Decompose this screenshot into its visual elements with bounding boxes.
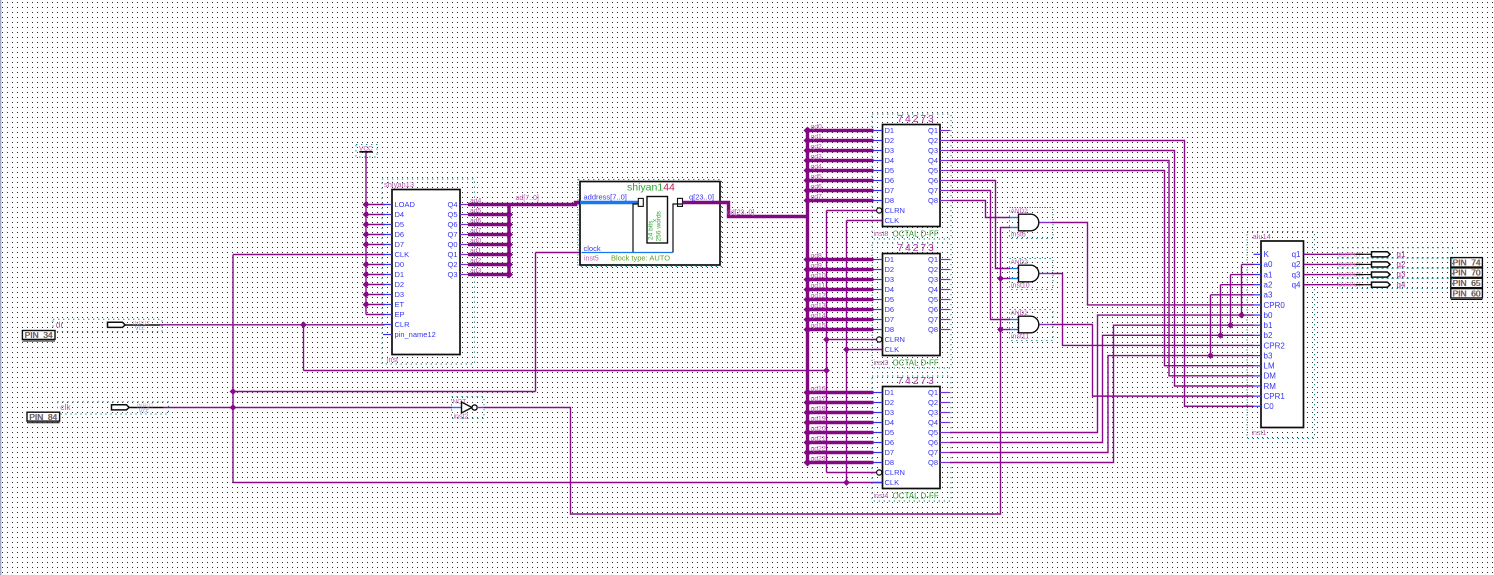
ALU component alu14 <box>1247 232 1315 439</box>
svg-text:CLR: CLR <box>395 320 411 329</box>
svg-text:qd12: qd12 <box>811 292 826 299</box>
svg-text:OUTPUT: OUTPUT <box>1338 283 1362 289</box>
svg-text:CLRN: CLRN <box>885 468 905 477</box>
svg-text:inst11: inst11 <box>1011 334 1029 341</box>
svg-text:qd14: qd14 <box>811 312 826 319</box>
svg-text:Q5: Q5 <box>447 210 457 219</box>
svg-text:CLK: CLK <box>885 478 900 487</box>
svg-text:Q1: Q1 <box>928 255 938 264</box>
svg-text:Q7: Q7 <box>447 230 457 239</box>
svg-text:inst: inst <box>387 357 398 364</box>
svg-text:OCTAL D-FF: OCTAL D-FF <box>893 229 939 238</box>
svg-text:Q6: Q6 <box>928 176 938 185</box>
svg-text:CLK: CLK <box>885 345 900 354</box>
register 74273 (inst3) OCTAL D-FF <box>872 243 951 368</box>
svg-text:Q2: Q2 <box>928 136 938 145</box>
svg-text:Vcc: Vcc <box>139 408 149 414</box>
svg-text:b0: b0 <box>1264 311 1273 320</box>
svg-text:D6: D6 <box>885 305 895 314</box>
svg-text:D1: D1 <box>885 126 895 135</box>
wire clk to CLK pins <box>843 221 882 486</box>
wire AND2 output to alu CPR2 <box>1052 274 1254 346</box>
svg-text:Q1: Q1 <box>928 388 938 397</box>
svg-text:Q8: Q8 <box>928 325 938 334</box>
svg-text:q2: q2 <box>1292 260 1301 269</box>
svg-text:PIN 70: PIN 70 <box>1453 268 1481 278</box>
svg-text:Q2: Q2 <box>447 260 457 269</box>
svg-text:qd3: qd3 <box>811 153 823 160</box>
svg-text:D7: D7 <box>885 315 895 324</box>
wire chip1 Q8 to AND1 input <box>950 201 1010 218</box>
wire NOT output (inverted clk) to AND gate inputs <box>484 228 1010 515</box>
svg-text:qd0: qd0 <box>811 123 823 130</box>
svg-text:inst5: inst5 <box>584 255 599 262</box>
bus taps qd0-qd7 <box>804 123 874 204</box>
svg-text:inst2: inst2 <box>454 414 469 421</box>
svg-text:ad0: ad0 <box>470 238 482 245</box>
svg-text:LOAD: LOAD <box>395 200 416 209</box>
output pin q4 (PIN 60) <box>1304 278 1483 299</box>
svg-text:alu14: alu14 <box>1253 232 1271 241</box>
svg-text:qd17: qd17 <box>811 395 826 402</box>
svg-text:Q3: Q3 <box>447 270 457 279</box>
svg-text:ad[7..0]: ad[7..0] <box>516 195 539 202</box>
svg-text:Q2: Q2 <box>928 398 938 407</box>
wire AND3 output to alu CPR1 <box>1052 325 1254 397</box>
svg-text:CLRN: CLRN <box>885 335 905 344</box>
svg-text:Q6: Q6 <box>447 220 457 229</box>
svg-text:qd[23..0]: qd[23..0] <box>727 210 754 217</box>
svg-text:DM: DM <box>1264 372 1277 381</box>
svg-text:D4: D4 <box>885 156 895 165</box>
svg-text:D1: D1 <box>885 388 895 397</box>
svg-text:ad3: ad3 <box>470 268 482 275</box>
svg-text:Q1: Q1 <box>928 126 938 135</box>
svg-text:C0: C0 <box>1264 402 1275 411</box>
svg-text:D3: D3 <box>395 290 405 299</box>
wire chip3 Q7 to alu b3 and a3 <box>950 295 1254 453</box>
svg-text:qd18: qd18 <box>811 405 826 412</box>
output pin q3 (PIN 65) <box>1304 268 1483 288</box>
svg-text:qd15: qd15 <box>811 322 826 329</box>
svg-text:PIN 60: PIN 60 <box>1453 288 1481 298</box>
svg-text:Q4: Q4 <box>928 156 938 165</box>
svg-text:qd13: qd13 <box>811 302 826 309</box>
svg-text:qd23: qd23 <box>811 455 826 462</box>
svg-text:qd7: qd7 <box>811 193 823 200</box>
svg-text:qd5: qd5 <box>811 173 823 180</box>
svg-text:a2: a2 <box>1264 280 1273 289</box>
svg-text:inst10: inst10 <box>1011 283 1030 290</box>
output pin q2 (PIN 70) <box>1304 258 1483 278</box>
svg-text:ad1: ad1 <box>470 248 482 255</box>
input pin clk (PIN 84) <box>27 402 169 423</box>
svg-text:q4: q4 <box>1292 280 1301 289</box>
svg-text:Q4: Q4 <box>928 418 938 427</box>
wire chip3 Q6 to alu b2 and a2 <box>950 285 1254 443</box>
svg-text:ad2: ad2 <box>470 258 482 265</box>
svg-text:Q5: Q5 <box>928 295 938 304</box>
svg-text:Q8: Q8 <box>928 196 938 205</box>
bus ad[7..0] taps ad4-ad3 <box>468 198 513 279</box>
svg-text:q1: q1 <box>1292 250 1301 259</box>
svg-text:ad7: ad7 <box>470 228 482 235</box>
svg-text:qd22: qd22 <box>811 445 826 452</box>
svg-text:qd2: qd2 <box>811 143 823 150</box>
svg-text:Q3: Q3 <box>928 408 938 417</box>
svg-text:D5: D5 <box>395 220 405 229</box>
svg-text:D7: D7 <box>395 240 405 249</box>
svg-text:CPR0: CPR0 <box>1264 301 1286 310</box>
wire clk net distribution <box>164 253 883 483</box>
wire chip1 Q3 to alu RM <box>950 151 1254 386</box>
wire dr net to CLR and register CLRNs <box>160 321 827 370</box>
svg-text:74273: 74273 <box>897 243 935 254</box>
svg-text:D2: D2 <box>885 265 895 274</box>
svg-text:D8: D8 <box>885 325 895 334</box>
svg-text:PIN 65: PIN 65 <box>1453 278 1481 288</box>
svg-text:ET: ET <box>395 300 405 309</box>
window left edge <box>0 0 1 575</box>
wire VCC to shiyan13 inputs <box>363 153 385 315</box>
svg-text:ad5: ad5 <box>470 208 482 215</box>
input pin dr (PIN 34) <box>22 319 162 341</box>
svg-text:D8: D8 <box>885 196 895 205</box>
ROM block shiyan144 <box>578 180 722 267</box>
svg-text:qd1: qd1 <box>811 133 823 140</box>
svg-text:inst3: inst3 <box>874 360 889 367</box>
svg-text:qd11: qd11 <box>811 282 826 289</box>
svg-text:D4: D4 <box>395 210 405 219</box>
svg-text:D1: D1 <box>395 270 405 279</box>
svg-text:qd19: qd19 <box>811 415 826 422</box>
svg-text:qd6: qd6 <box>811 183 823 190</box>
svg-text:74273: 74273 <box>897 376 935 387</box>
svg-text:qd16: qd16 <box>811 385 826 392</box>
svg-text:LM: LM <box>1264 362 1275 371</box>
svg-text:ad6: ad6 <box>470 218 482 225</box>
svg-text:CLK: CLK <box>395 250 410 259</box>
register 74273 (inst4) OCTAL D-FF <box>872 376 951 501</box>
svg-text:D6: D6 <box>885 176 895 185</box>
svg-text:CLRN: CLRN <box>885 206 905 215</box>
wire chip3 Q5 to alu b0 and a0 <box>950 264 1254 432</box>
svg-text:PIN 34: PIN 34 <box>25 330 53 340</box>
svg-text:D4: D4 <box>885 418 895 427</box>
svg-text:D2: D2 <box>395 280 405 289</box>
svg-text:D5: D5 <box>885 166 895 175</box>
svg-text:Q2: Q2 <box>928 265 938 274</box>
wire chip3 Q8 to alu b1 and a1 <box>950 275 1254 463</box>
svg-text:PIN 84: PIN 84 <box>29 412 57 422</box>
svg-text:OCTAL D-FF: OCTAL D-FF <box>893 491 939 500</box>
svg-text:clock: clock <box>584 244 601 253</box>
svg-text:qd4: qd4 <box>811 163 823 170</box>
svg-text:PIN 74: PIN 74 <box>1453 257 1481 267</box>
svg-text:Q4: Q4 <box>447 200 457 209</box>
svg-text:D2: D2 <box>885 398 895 407</box>
svg-text:Q1: Q1 <box>447 250 457 259</box>
svg-text:q4: q4 <box>1397 280 1406 289</box>
svg-text:qd10: qd10 <box>811 272 826 279</box>
svg-text:Q3: Q3 <box>928 146 938 155</box>
bus qd vertical distribution <box>806 131 809 463</box>
wire chip1 Q6 to AND2 input <box>950 181 1010 269</box>
svg-text:D6: D6 <box>885 438 895 447</box>
svg-text:D3: D3 <box>885 275 895 284</box>
svg-text:inst1: inst1 <box>1252 430 1267 437</box>
output pin q1 (PIN 74) <box>1304 248 1483 268</box>
bus taps qd8-qd15 <box>804 252 874 333</box>
svg-text:q3: q3 <box>1292 270 1301 279</box>
svg-text:D7: D7 <box>885 186 895 195</box>
svg-text:Q5: Q5 <box>928 428 938 437</box>
svg-text:D3: D3 <box>885 146 895 155</box>
svg-text:Q8: Q8 <box>928 458 938 467</box>
svg-text:OCTAL D-FF: OCTAL D-FF <box>893 358 939 367</box>
svg-text:pin_name12: pin_name12 <box>395 330 436 339</box>
AND gate inst11 <box>1010 310 1054 341</box>
svg-text:clk: clk <box>60 402 71 412</box>
svg-text:K: K <box>1264 250 1270 259</box>
svg-text:a0: a0 <box>1264 260 1273 269</box>
svg-text:D7: D7 <box>885 448 895 457</box>
wire chip1 Q5 to alu LM <box>950 171 1254 366</box>
svg-text:x: x <box>653 219 659 222</box>
svg-text:qd20: qd20 <box>811 425 826 432</box>
power VCC symbol <box>356 145 377 158</box>
svg-text:Q7: Q7 <box>928 448 938 457</box>
svg-text:q[23..0]: q[23..0] <box>689 193 714 202</box>
bus qd[23..0] from shiyan144 to distribution <box>720 203 808 217</box>
wire chip1 Q7 to AND3 input <box>950 191 1010 320</box>
svg-text:qd9: qd9 <box>811 262 823 269</box>
svg-text:CPR2: CPR2 <box>1264 341 1286 350</box>
wire chip1 Q2 to alu C0 <box>950 141 1254 407</box>
svg-text:Q5: Q5 <box>928 166 938 175</box>
wire chip1 Q4 to alu DM <box>950 161 1254 376</box>
svg-text:qd8: qd8 <box>811 252 823 259</box>
svg-text:D8: D8 <box>885 458 895 467</box>
AND gate inst10 <box>1010 259 1054 290</box>
svg-text:D3: D3 <box>885 408 895 417</box>
svg-text:CPR1: CPR1 <box>1264 392 1286 401</box>
svg-text:b2: b2 <box>1264 331 1273 340</box>
counter component shiyan13 (pin_name12) <box>382 179 475 364</box>
svg-text:Block type: AUTO: Block type: AUTO <box>611 254 670 263</box>
svg-text:Vcc: Vcc <box>135 326 145 332</box>
svg-text:inst4: inst4 <box>874 493 889 500</box>
svg-text:b3: b3 <box>1264 351 1273 360</box>
svg-text:Q7: Q7 <box>928 186 938 195</box>
svg-text:D0: D0 <box>395 260 405 269</box>
svg-text:Q6: Q6 <box>928 438 938 447</box>
svg-text:Q3: Q3 <box>928 275 938 284</box>
AND gate inst6 <box>1010 208 1054 239</box>
svg-text:shiyan13: shiyan13 <box>384 180 414 189</box>
register 74273 (inst8) OCTAL D-FF <box>872 114 951 239</box>
svg-text:RM: RM <box>1264 382 1277 391</box>
svg-text:ad4: ad4 <box>470 198 482 205</box>
svg-text:D1: D1 <box>885 255 895 264</box>
svg-text:Q0: Q0 <box>447 240 457 249</box>
svg-text:inst8: inst8 <box>874 231 889 238</box>
svg-text:256 words: 256 words <box>656 210 663 241</box>
svg-text:dr: dr <box>56 319 64 329</box>
svg-text:D5: D5 <box>885 295 895 304</box>
svg-text:Q7: Q7 <box>928 315 938 324</box>
svg-text:EP: EP <box>395 310 405 319</box>
svg-text:a3: a3 <box>1264 291 1273 300</box>
svg-text:shiyan144: shiyan144 <box>627 182 675 194</box>
svg-text:qd21: qd21 <box>811 435 826 442</box>
svg-text:Q6: Q6 <box>928 305 938 314</box>
svg-text:a1: a1 <box>1264 270 1273 279</box>
svg-text:D2: D2 <box>885 136 895 145</box>
svg-text:D6: D6 <box>395 230 405 239</box>
wire dr to CLRN pins <box>823 211 876 473</box>
bus taps qd16-qd23 <box>804 385 874 466</box>
svg-text:b1: b1 <box>1264 321 1273 330</box>
svg-text:D4: D4 <box>885 285 895 294</box>
inverter NOT inst2 <box>452 397 485 421</box>
wire AND1 output to alu CPR0 <box>1052 223 1254 305</box>
svg-text:inst6: inst6 <box>1011 232 1026 239</box>
svg-text:address[7..0]: address[7..0] <box>584 193 627 202</box>
bus ad[7..0] to shiyan144 address <box>509 195 580 204</box>
svg-text:D5: D5 <box>885 428 895 437</box>
svg-text:Q4: Q4 <box>928 285 938 294</box>
svg-text:74273: 74273 <box>897 114 935 125</box>
svg-text:CLK: CLK <box>885 216 900 225</box>
